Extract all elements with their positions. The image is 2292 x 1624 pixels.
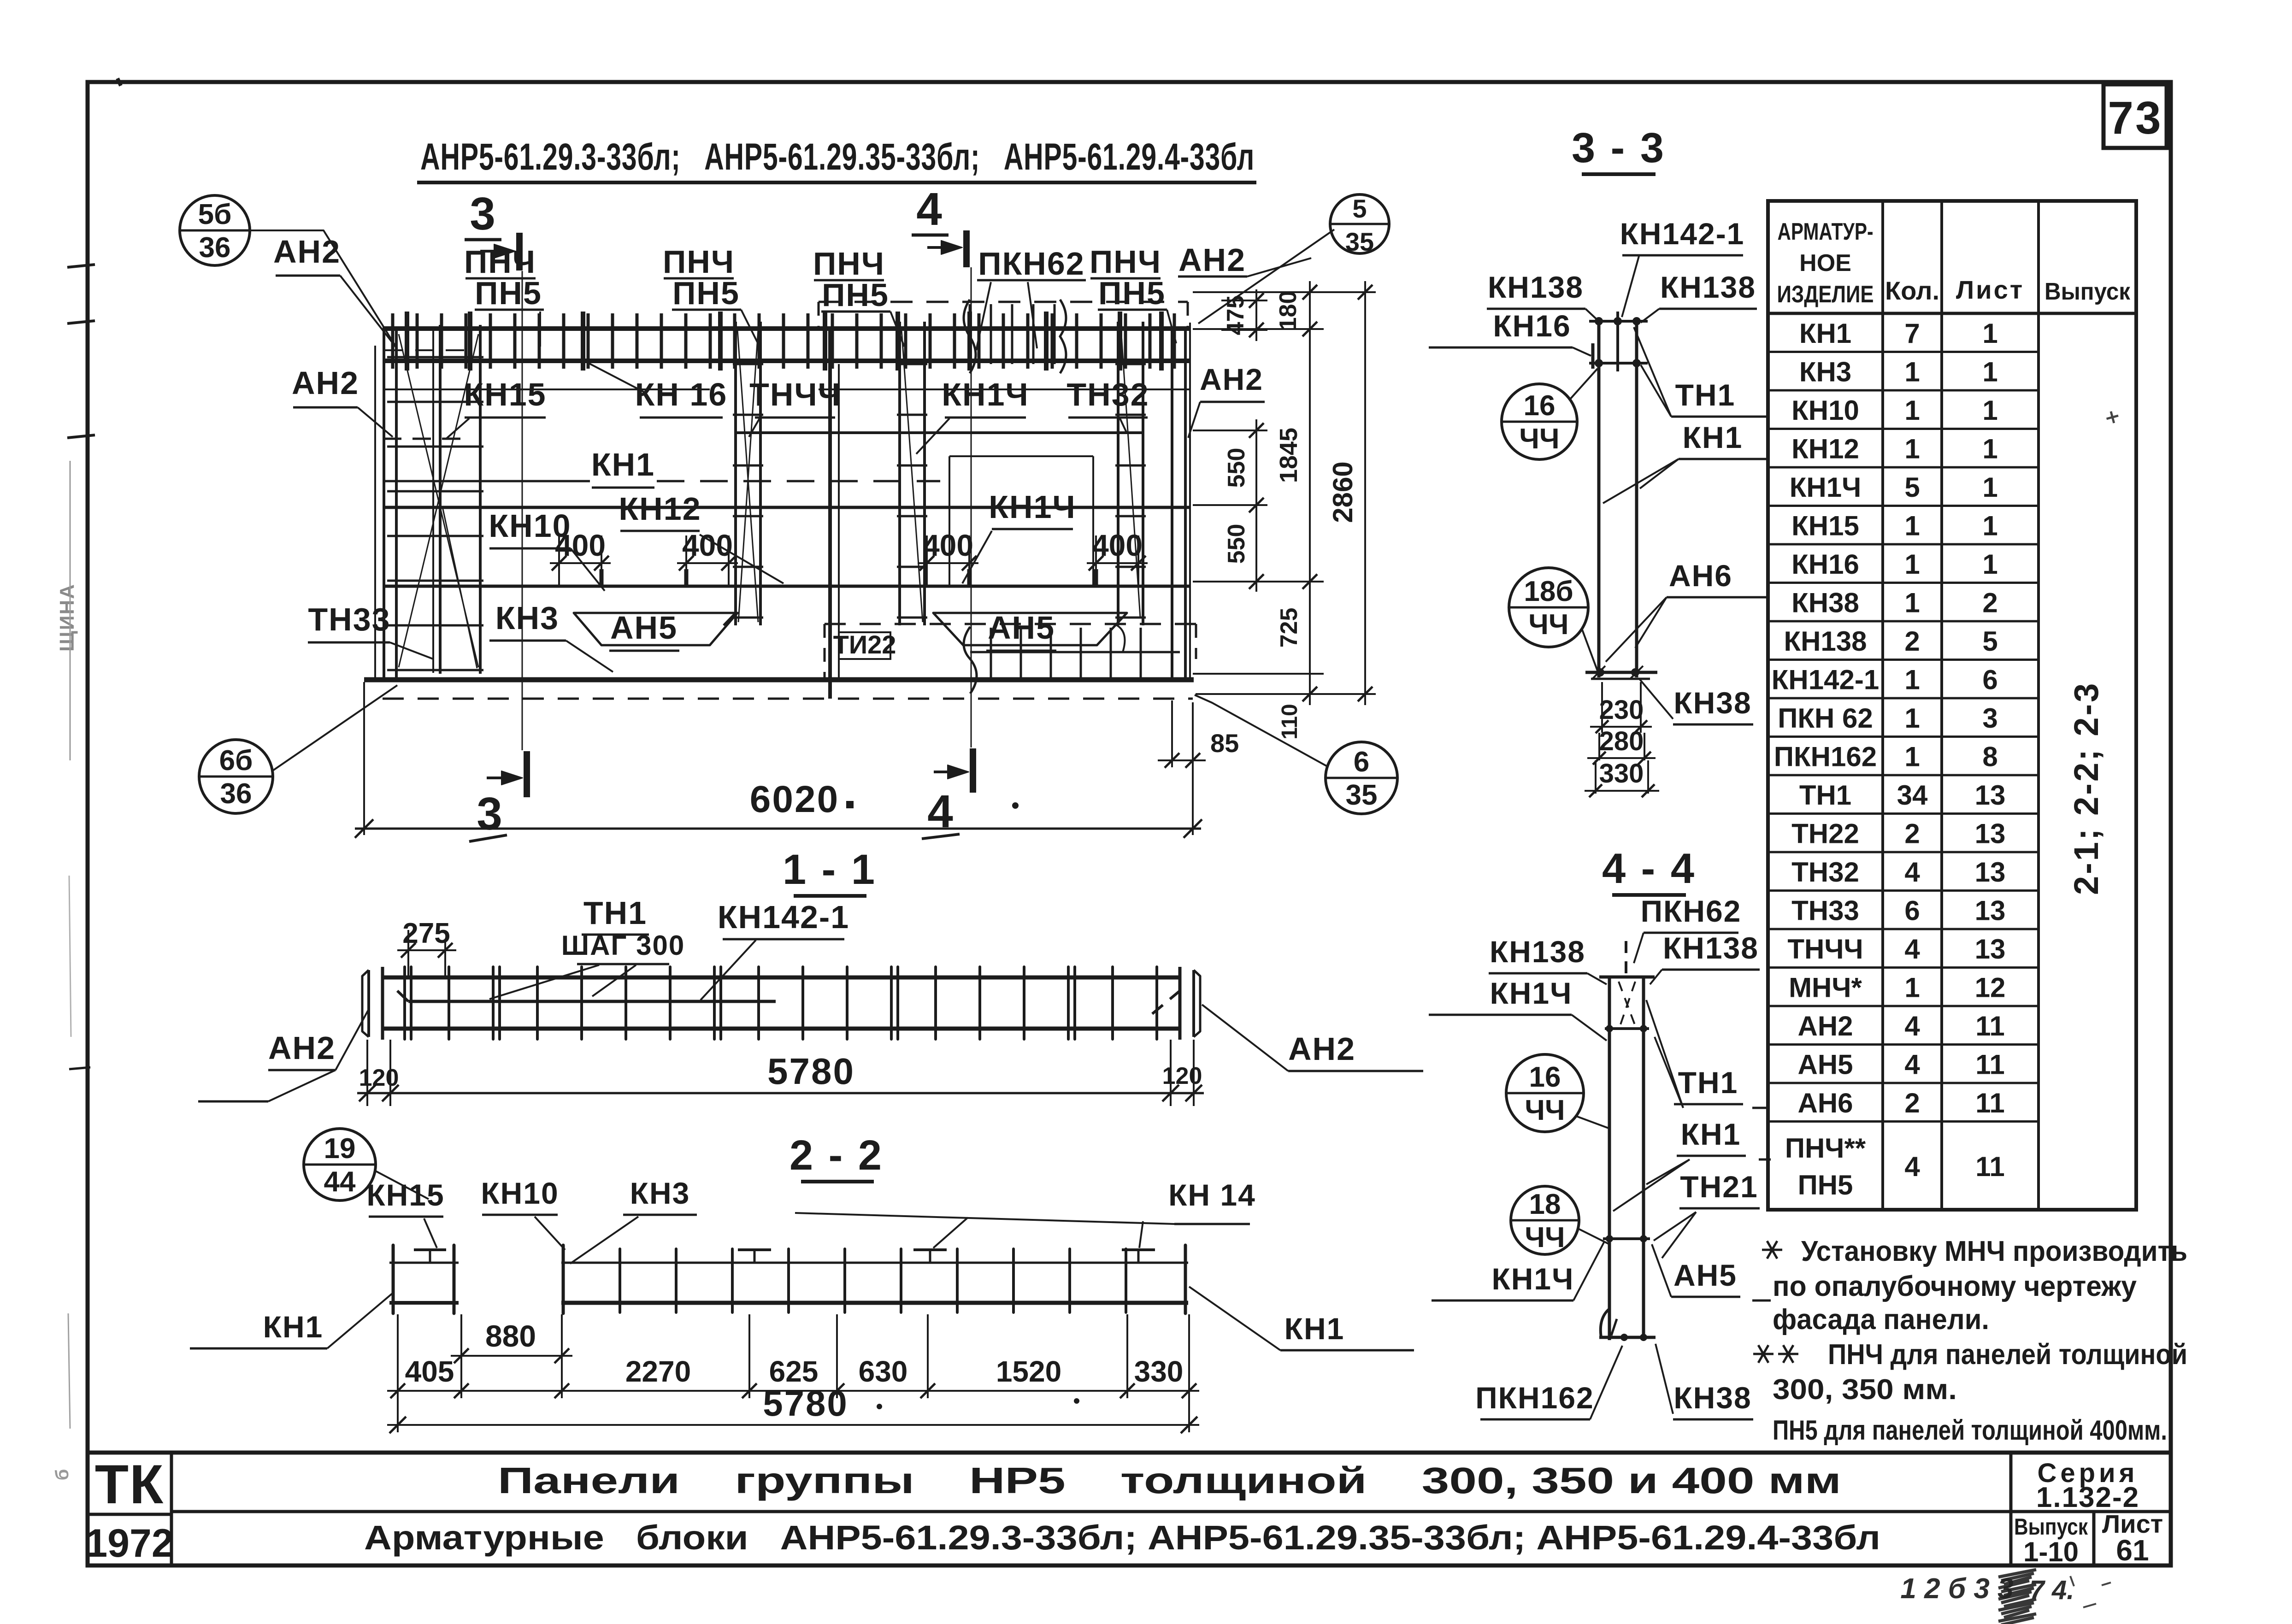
svg-text:КН138: КН138	[1663, 931, 1759, 965]
section marker 4 bottom	[970, 748, 976, 793]
svg-text:ЧЧ: ЧЧ	[1519, 423, 1559, 455]
dim 725	[1309, 582, 1311, 674]
svg-text:КН1: КН1	[1683, 420, 1743, 454]
dim 5780 in 1-1	[366, 1040, 368, 1106]
svg-text:ПНЧ: ПНЧ	[813, 246, 885, 282]
svg-text:АН2: АН2	[1178, 242, 1246, 278]
dashed formwork outline над верхним поясом (ПН5 zone)	[819, 301, 1188, 303]
title block vertical ТК cell	[170, 1453, 173, 1565]
svg-text:1: 1	[1904, 703, 1920, 734]
sheet number box	[2103, 84, 2167, 148]
dim chain 2-2 line	[387, 1390, 1199, 1392]
section 4-4 ПКН62 dashed tie	[1625, 941, 1627, 977]
svg-text:КН3: КН3	[495, 600, 559, 636]
dim 880 in 2-2	[460, 1314, 462, 1363]
parts table outer box	[1768, 201, 2136, 1210]
svg-text:КН3: КН3	[630, 1176, 690, 1210]
svg-text:КН1: КН1	[1799, 318, 1851, 349]
svg-text:2: 2	[1904, 626, 1920, 657]
svg-text:АРМАТУР-: АРМАТУР-	[1778, 218, 1874, 245]
svg-text:35: 35	[1345, 227, 1374, 256]
svg-text:1-10: 1-10	[2023, 1536, 2079, 1567]
svg-text:Установку МНЧ производить: Установку МНЧ производить	[1801, 1236, 2187, 1267]
svg-text:5: 5	[1982, 626, 1997, 657]
svg-text:КН138: КН138	[1660, 270, 1756, 304]
svg-text:1520: 1520	[996, 1355, 1061, 1388]
svg-text:б: б	[52, 1469, 72, 1481]
svg-text:АН2: АН2	[1200, 362, 1263, 396]
svg-text:Арматурные блоки АНР5-61.2: Арматурные блоки АНР5-61.29.3-33бл; АНР5…	[364, 1518, 1880, 1557]
title block top line	[88, 1451, 2171, 1455]
svg-text:КН138: КН138	[1488, 270, 1584, 304]
svg-text:1.132-2: 1.132-2	[2036, 1482, 2139, 1513]
svg-text:61: 61	[2116, 1534, 2149, 1567]
embed ПКН162 dashed zone bottom	[825, 623, 1196, 625]
svg-text:6: 6	[1982, 664, 1997, 695]
svg-text:12: 12	[1975, 972, 2006, 1003]
svg-text:13: 13	[1975, 895, 2006, 926]
svg-text:Панели группы НР5 тол: Панели группы НР5 толщиной 300, 350 и 40…	[498, 1460, 1841, 1501]
parts table column lines	[1881, 201, 1884, 1210]
dim 400 pair 1	[558, 535, 560, 585]
svg-text:550: 550	[1223, 448, 1250, 488]
window inner outline right bay	[949, 456, 950, 586]
section 2-2 left block	[392, 1245, 395, 1313]
svg-text:КН38: КН38	[1673, 1381, 1751, 1415]
svg-text:КН38: КН38	[1791, 587, 1859, 618]
svg-text:КН10: КН10	[1791, 395, 1859, 426]
svg-text:ТН1: ТН1	[583, 895, 647, 931]
svg-text:Кол.: Кол.	[1885, 276, 1939, 305]
svg-text:11: 11	[1975, 1088, 2004, 1118]
svg-text:КН1Ч: КН1Ч	[1491, 1262, 1574, 1296]
callout circle 18/44 in 4-4	[1511, 1186, 1579, 1254]
dim 2860	[1364, 281, 1366, 705]
svg-text:280: 280	[1599, 726, 1644, 756]
svg-text:ЧЧ: ЧЧ	[1525, 1094, 1565, 1126]
svg-text:4: 4	[1904, 934, 1920, 965]
section 4-4 bar verticals	[1608, 977, 1611, 1340]
svg-text:КН16: КН16	[1791, 549, 1859, 580]
svg-text:НОЕ: НОЕ	[1799, 250, 1851, 277]
svg-text:КН12: КН12	[1791, 433, 1859, 464]
svg-text:7: 7	[1904, 318, 1920, 349]
svg-text:КН1Ч: КН1Ч	[1790, 472, 1861, 503]
svg-text:6020: 6020	[750, 778, 839, 820]
svg-text:725: 725	[1276, 608, 1302, 648]
top chord rail lower	[383, 359, 1190, 363]
svg-text:АН2: АН2	[1797, 1011, 1853, 1041]
dim 475	[1255, 289, 1257, 341]
svg-text:11: 11	[1975, 1049, 2004, 1080]
svg-text:КН142-1: КН142-1	[1772, 664, 1879, 695]
svg-text:1: 1	[1904, 664, 1920, 695]
svg-text:405: 405	[405, 1355, 454, 1388]
svg-text:ТН32: ТН32	[1791, 857, 1859, 888]
callout circle 5/35	[1330, 194, 1389, 253]
svg-text:11: 11	[1975, 1151, 2004, 1182]
interior horizontal line mid	[383, 506, 1190, 509]
svg-text:2: 2	[1904, 1088, 1920, 1118]
interior horizontal line lower	[383, 585, 1190, 588]
svg-text:4: 4	[927, 786, 953, 837]
svg-text:1: 1	[1982, 356, 1997, 387]
section 2-2 beam rails	[561, 1262, 1188, 1264]
svg-text:44: 44	[324, 1166, 356, 1198]
svg-text:1 2 б 3 3: 1 2 б 3 3	[1900, 1573, 2013, 1605]
svg-text:400: 400	[555, 528, 606, 562]
top chord rungs	[391, 313, 395, 369]
svg-text:300, 350 мм.: 300, 350 мм.	[1773, 1374, 1957, 1406]
svg-text:1 - 1: 1 - 1	[783, 846, 877, 893]
svg-text:180: 180	[1275, 291, 1302, 331]
svg-text:1: 1	[1982, 472, 1997, 503]
column ТН22 bar	[828, 329, 832, 699]
panel outline left edge	[374, 346, 376, 680]
column right ladder	[1117, 322, 1119, 625]
svg-text:АНР5-61.29.3-33бл; АНР5-61.2: АНР5-61.29.3-33бл; АНР5-61.29.35-33бл; А…	[420, 136, 1255, 178]
section 1-1 beam left end cap	[367, 970, 370, 1037]
svg-text:АН5: АН5	[1797, 1049, 1853, 1080]
panel outline right edge	[1189, 323, 1191, 680]
section 3-3 КН16 tick	[1591, 343, 1595, 369]
section 1-1 bar КН142-1	[408, 1000, 776, 1003]
svg-text:КН12: КН12	[619, 491, 701, 527]
section 2-2 tee marks above beam	[738, 1248, 771, 1251]
svg-text:3 - 3: 3 - 3	[1572, 124, 1666, 171]
left margin registration ticks	[67, 265, 95, 267]
svg-text:КН16: КН16	[1493, 309, 1571, 343]
svg-text:13: 13	[1975, 818, 2006, 849]
svg-text:КН38: КН38	[1673, 686, 1751, 720]
svg-text:КН1: КН1	[1284, 1312, 1345, 1346]
interior horizontal line upper (right bay top)	[736, 431, 1143, 434]
svg-text:ТН1: ТН1	[1675, 378, 1736, 412]
right dim extension lines	[1193, 291, 1376, 293]
svg-text:1: 1	[1982, 433, 1997, 464]
dim 5780 in 2-2	[397, 1398, 399, 1432]
svg-text:Лист: Лист	[1956, 275, 2024, 304]
title block mid line	[171, 1510, 2171, 1513]
column КН14 ladder	[898, 322, 901, 625]
svg-text:73: 73	[2108, 92, 2162, 144]
svg-text:35: 35	[1346, 779, 1378, 811]
svg-text:ЧЧ: ЧЧ	[1528, 609, 1568, 641]
svg-text:ТК: ТК	[95, 1453, 165, 1515]
svg-text:АН6: АН6	[1797, 1088, 1853, 1118]
svg-text:13: 13	[1975, 934, 2006, 965]
top chord heavy rungs	[405, 312, 409, 371]
svg-text:ПН5 для панелей толщиной 40: ПН5 для панелей толщиной 400мм.	[1773, 1415, 2167, 1446]
svg-text:13: 13	[1975, 780, 2006, 811]
svg-text:ТН21: ТН21	[1680, 1170, 1758, 1204]
svg-text:ТИ22: ТИ22	[833, 630, 896, 659]
svg-text:5780: 5780	[767, 1051, 855, 1092]
svg-text:6: 6	[1354, 746, 1369, 778]
svg-text:8: 8	[1982, 741, 1997, 772]
dim 275 in 1-1	[407, 930, 409, 977]
svg-text:1: 1	[1904, 395, 1920, 426]
svg-text:1: 1	[1982, 318, 1997, 349]
section 4-4 bottom plate	[1599, 1336, 1656, 1339]
svg-text:фасада панели.: фасада панели.	[1773, 1304, 1989, 1336]
embed ПКН62 ladder top right	[969, 304, 971, 364]
callout circle 6б/36	[199, 740, 273, 813]
label ТН22 boxed	[839, 632, 890, 659]
column ТНЧЧ ladder	[734, 322, 737, 625]
section 2-2 beam rungs	[619, 1249, 621, 1312]
svg-text:ПН5: ПН5	[475, 275, 542, 311]
dim 110	[1309, 674, 1311, 705]
panel bottom chord thick line	[364, 677, 1194, 683]
svg-text:7 4.: 7 4.	[2030, 1575, 2074, 1605]
column АН2 left edge bar	[383, 329, 385, 680]
embed ПКН162 ladder bottom	[970, 651, 1180, 653]
top chord dashed centerline	[385, 349, 468, 351]
svg-text:КН15: КН15	[464, 377, 546, 412]
svg-text:ЩИНА: ЩИНА	[56, 583, 78, 652]
section 4-4 top box crossbar	[1605, 1027, 1649, 1030]
svg-text:2 - 2: 2 - 2	[790, 1132, 884, 1179]
svg-text:1: 1	[1904, 587, 1920, 618]
callout circle 19/44	[304, 1129, 376, 1200]
svg-text:КН1Ч: КН1Ч	[989, 489, 1076, 525]
svg-text:ТНЧЧ: ТНЧЧ	[1787, 934, 1863, 965]
svg-text:3: 3	[477, 788, 502, 840]
svg-text:КН1: КН1	[1681, 1117, 1741, 1151]
column АН2 right edge bar	[1171, 329, 1173, 680]
section 1-1 beam rails	[383, 976, 1180, 980]
svg-text:6: 6	[1904, 895, 1920, 926]
svg-text:ПКН162: ПКН162	[1475, 1381, 1594, 1415]
svg-text:АН5: АН5	[610, 610, 678, 646]
svg-text:120: 120	[1162, 1063, 1202, 1089]
note star 2	[1753, 1353, 1774, 1355]
svg-text:АН5: АН5	[1673, 1258, 1737, 1292]
svg-text:330: 330	[1134, 1355, 1184, 1388]
dashed tie at left column	[383, 438, 461, 440]
svg-text:1: 1	[1982, 549, 1997, 580]
callout circle 6/35	[1326, 742, 1397, 814]
svg-text:КН138: КН138	[1784, 626, 1867, 657]
svg-text:13: 13	[1975, 857, 2006, 888]
dim 85 bottom right	[1171, 700, 1173, 767]
svg-text:Выпуск: Выпуск	[2045, 278, 2131, 305]
svg-text:2: 2	[1904, 818, 1920, 849]
dim 6020 extension lines	[363, 682, 365, 835]
svg-text:АН2: АН2	[273, 234, 341, 270]
svg-text:5б: 5б	[198, 199, 232, 230]
window bay edges	[479, 481, 481, 586]
svg-text:ПН5: ПН5	[1098, 275, 1166, 311]
svg-text:2270: 2270	[625, 1355, 691, 1388]
dim chain 2-2 extension lines	[397, 1314, 399, 1398]
cut plane line 3-3	[522, 271, 523, 750]
svg-text:4 - 4: 4 - 4	[1602, 845, 1696, 892]
section 3-3 centre stub	[1616, 312, 1619, 371]
svg-text:1: 1	[1982, 395, 1997, 426]
svg-text:230: 230	[1599, 695, 1644, 725]
svg-text:ТН1: ТН1	[1678, 1065, 1738, 1100]
svg-text:КН10: КН10	[481, 1176, 559, 1210]
panel bottom dashed line	[383, 698, 1193, 700]
svg-text:1: 1	[1904, 356, 1920, 387]
svg-text:ТН33: ТН33	[1791, 895, 1859, 926]
svg-text:2860: 2860	[1327, 461, 1358, 523]
svg-text:1: 1	[1982, 510, 1997, 541]
svg-text:19: 19	[324, 1133, 356, 1165]
svg-text:ТН32: ТН32	[1066, 377, 1149, 412]
section 2-2 beam end bars	[562, 1245, 565, 1313]
svg-text:ТН1: ТН1	[1799, 780, 1851, 811]
cut plane line 4-4	[971, 267, 972, 747]
svg-text:МНЧ*: МНЧ*	[1789, 972, 1862, 1003]
top chord rail upper	[383, 326, 1190, 331]
svg-text:ПН5: ПН5	[1798, 1170, 1853, 1200]
svg-text:КН142-1: КН142-1	[718, 899, 849, 935]
title block vertical выпуск-лист divider	[2092, 1512, 2096, 1565]
svg-text:КН 14: КН 14	[1168, 1178, 1256, 1212]
svg-text:ПКН162: ПКН162	[1774, 741, 1877, 772]
svg-text:330: 330	[1599, 759, 1644, 788]
svg-text:КН1: КН1	[263, 1310, 324, 1344]
anchor АН5 trapezoid left	[574, 613, 737, 645]
svg-text:1972: 1972	[85, 1521, 173, 1565]
svg-text:ПН5: ПН5	[822, 277, 889, 313]
callout circle 5б/36	[180, 195, 250, 265]
svg-text:400: 400	[1092, 528, 1143, 562]
svg-text:ПНЧ для панелей толщиной: ПНЧ для панелей толщиной	[1828, 1339, 2187, 1371]
section 3-3 top crossbars	[1589, 320, 1648, 323]
svg-text:36: 36	[220, 778, 252, 810]
column КН15 ladder	[439, 325, 442, 674]
svg-text:ПКН 62: ПКН 62	[1778, 703, 1873, 734]
svg-text:КН1: КН1	[591, 447, 655, 482]
svg-text:1: 1	[1904, 741, 1920, 772]
svg-text:ПНЧ: ПНЧ	[1090, 244, 1161, 280]
section 4-4 mid crossbar	[1603, 1237, 1650, 1240]
svg-text:6б: 6б	[219, 745, 253, 777]
svg-text:ПКН62: ПКН62	[978, 246, 1084, 282]
svg-text:АН5: АН5	[988, 610, 1055, 646]
svg-text:4: 4	[1904, 1151, 1920, 1182]
section 4-4 top plate	[1599, 976, 1655, 979]
svg-text:ШАГ 300: ШАГ 300	[561, 930, 685, 961]
svg-text:1: 1	[1904, 510, 1920, 541]
title block vertical серия cell	[2009, 1453, 2013, 1565]
svg-text:1: 1	[1904, 549, 1920, 580]
callout circle 16/44 in 4-4	[1506, 1054, 1584, 1132]
svg-text:ИЗДЕЛИЕ: ИЗДЕЛИЕ	[1777, 281, 1874, 308]
svg-text:5: 5	[1352, 194, 1367, 223]
svg-text:4: 4	[1904, 1011, 1920, 1041]
dim 550 550 chain	[1255, 419, 1257, 592]
svg-text:4: 4	[916, 183, 942, 235]
svg-text:120: 120	[359, 1065, 399, 1091]
svg-text:3: 3	[470, 188, 495, 240]
dim 6020 line	[355, 828, 1201, 830]
anchor АН5 trapezoid right	[933, 613, 1127, 645]
callout circle 18б/44 in 3-3	[1509, 568, 1588, 647]
svg-text:3: 3	[1982, 703, 1997, 734]
section 3-3 dims 230 280 330	[1601, 682, 1603, 733]
svg-text:ПНЧ: ПНЧ	[663, 244, 735, 280]
svg-text:18: 18	[1529, 1189, 1561, 1220]
svg-text:85: 85	[1210, 729, 1239, 758]
section 1-1 beam right end cap	[1178, 967, 1182, 1040]
svg-text:ПНЧ**: ПНЧ**	[1785, 1133, 1866, 1164]
svg-text:КН3: КН3	[1799, 356, 1851, 387]
svg-text:275: 275	[402, 918, 450, 949]
parts table header bottom line	[1768, 312, 2136, 315]
section 3-3 bottom plate	[1585, 671, 1657, 674]
svg-text:18б: 18б	[1524, 576, 1573, 607]
svg-text:КН15: КН15	[1791, 510, 1859, 541]
section 1-1 beam rungs	[403, 967, 406, 1039]
svg-text:КН1Ч: КН1Ч	[1490, 976, 1572, 1010]
svg-text:АН6: АН6	[1669, 559, 1732, 593]
svg-text:11: 11	[1975, 1011, 2004, 1041]
svg-text:КН142-1: КН142-1	[1620, 217, 1745, 251]
dim 180	[1309, 281, 1311, 340]
svg-text:16: 16	[1524, 390, 1555, 422]
svg-text:475: 475	[1222, 295, 1249, 335]
svg-text:4: 4	[1904, 1049, 1920, 1080]
svg-text:630: 630	[859, 1355, 908, 1388]
svg-text:5: 5	[1904, 472, 1920, 503]
svg-text:КН1Ч: КН1Ч	[942, 377, 1029, 412]
svg-text:ТН33: ТН33	[308, 601, 390, 637]
svg-text:2: 2	[1982, 587, 1997, 618]
svg-text:по опалубочному чертежу: по опалубочному чертежу	[1773, 1271, 2137, 1302]
svg-text:АН2: АН2	[292, 365, 359, 401]
svg-text:ЧЧ: ЧЧ	[1525, 1222, 1565, 1253]
svg-text:ПКН62: ПКН62	[1641, 894, 1742, 928]
svg-text:400: 400	[923, 528, 973, 562]
svg-text:КН15: КН15	[366, 1178, 444, 1212]
parts table row lines	[1768, 351, 2039, 353]
svg-text:КН138: КН138	[1490, 935, 1585, 969]
handwritten smudge	[1998, 1570, 2036, 1624]
top chord thin line	[383, 388, 710, 390]
svg-text:550: 550	[1223, 524, 1250, 564]
note star 1	[1762, 1249, 1782, 1251]
svg-text:5780: 5780	[763, 1383, 848, 1424]
svg-text:4: 4	[1904, 857, 1920, 888]
svg-text:36: 36	[199, 232, 231, 264]
dim 1845	[1309, 329, 1311, 582]
svg-text:КН 16: КН 16	[635, 377, 728, 412]
svg-text:1845: 1845	[1275, 428, 1302, 483]
section marker 3 bottom	[524, 751, 530, 797]
svg-text:1: 1	[1904, 433, 1920, 464]
svg-text:ТН22: ТН22	[1791, 818, 1859, 849]
svg-text:400: 400	[682, 528, 733, 562]
section 2-2 left block tick	[414, 1248, 446, 1251]
svg-text:ТНЧЧ: ТНЧЧ	[749, 377, 842, 412]
svg-text:АН2: АН2	[1288, 1031, 1355, 1067]
svg-text:Выпуск: Выпуск	[2014, 1514, 2088, 1540]
svg-text:1: 1	[1904, 972, 1920, 1003]
section 3-3 bar verticals	[1597, 318, 1601, 677]
svg-text:2-1; 2-2; 2-3: 2-1; 2-2; 2-3	[2067, 682, 2105, 895]
svg-text:АН2: АН2	[268, 1030, 336, 1066]
svg-text:110: 110	[1278, 704, 1302, 739]
svg-text:ПН5: ПН5	[672, 275, 740, 311]
interior horizontal line КН1 level	[383, 480, 590, 482]
callout circle 16/44 in 3-3	[1502, 384, 1577, 459]
svg-text:16: 16	[1529, 1061, 1561, 1093]
